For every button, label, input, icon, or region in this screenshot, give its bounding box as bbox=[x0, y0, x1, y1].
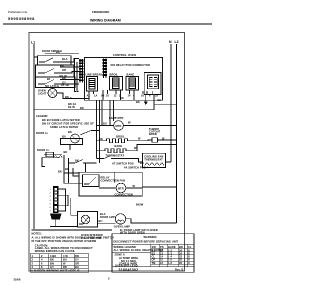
wire L2 bus bbox=[176, 44, 178, 223]
motor conv2 bbox=[116, 183, 126, 193]
svg-text:BN GY CIRCUIT FOR SPECIFIC: BN GY CIRCUIT FOR SPECIFIC USE OF bbox=[42, 122, 94, 126]
switch S2 box bbox=[36, 65, 75, 77]
wire vert bus 96 bbox=[96, 100, 98, 158]
svg-text:X: X bbox=[188, 261, 190, 265]
svg-text:1A: 1A bbox=[94, 94, 98, 98]
svg-text:W: W bbox=[128, 120, 131, 124]
chassis arrow bbox=[145, 95, 147, 102]
thermostat switch wire bbox=[97, 156, 112, 159]
lock motor circle bbox=[81, 215, 90, 224]
svg-text:WIRING ERRORS CAN CAUSE: WIRING ERRORS CAN CAUSE bbox=[35, 249, 75, 253]
svg-text:Publication No.: Publication No. bbox=[8, 10, 28, 14]
svg-text:BU: BU bbox=[62, 135, 66, 139]
wire left drop bbox=[64, 173, 70, 183]
svg-text:14: 14 bbox=[128, 94, 132, 98]
control board box bbox=[85, 58, 163, 101]
svg-text:35/06: 35/06 bbox=[14, 277, 21, 281]
svg-text:BK: BK bbox=[50, 258, 54, 262]
legend sub table bbox=[151, 244, 195, 267]
svg-text:SOME LATCH NOTED: SOME LATCH NOTED bbox=[50, 125, 78, 129]
svg-text:MTR: MTR bbox=[116, 124, 122, 128]
switch S1 contact bbox=[39, 58, 53, 62]
svg-text:Rev. B: Rev. B bbox=[175, 267, 184, 271]
relay K4 coil bbox=[149, 78, 157, 87]
relay inner box bbox=[82, 175, 99, 187]
notes divider bbox=[31, 229, 112, 231]
svg-text:BK BU SOME LATCH NOTED: BK BU SOME LATCH NOTED bbox=[42, 118, 80, 122]
wire box to L2 bbox=[142, 186, 176, 188]
svg-text:BK: BK bbox=[64, 150, 68, 154]
cooling fan box bbox=[143, 153, 166, 167]
svg-text:OR: OR bbox=[75, 261, 79, 265]
wire bake to L2 bbox=[131, 145, 176, 151]
wire from conv box down bbox=[70, 198, 72, 215]
svg-text:BROIL: BROIL bbox=[110, 73, 119, 77]
svg-text:MTR: MTR bbox=[118, 186, 124, 190]
svg-text:318046302: 318046302 bbox=[119, 268, 139, 272]
wire lamp feed bbox=[98, 222, 116, 224]
wire vertical drop A bbox=[75, 59, 77, 92]
wire bottom left circuit bbox=[50, 226, 78, 228]
svg-text:BK: BK bbox=[75, 159, 79, 163]
wire vert 110 bbox=[109, 100, 111, 125]
svg-text:AT SWITCH POS: AT SWITCH POS bbox=[112, 162, 134, 166]
svg-text:LEGEND:: LEGEND: bbox=[36, 114, 48, 118]
svg-text:OR: OR bbox=[62, 68, 66, 72]
svg-text:BK: BK bbox=[158, 98, 162, 102]
wire lamp out bbox=[57, 93, 89, 99]
svg-text:1-6: 1-6 bbox=[168, 261, 173, 265]
wire conv right to N bbox=[123, 125, 176, 127]
svg-text:LINE BREAK: LINE BREAK bbox=[86, 73, 103, 77]
connector P1 strip bbox=[80, 59, 83, 83]
svg-text:A1: A1 bbox=[87, 94, 91, 98]
wire motor right bbox=[126, 187, 143, 189]
wire S3 out bbox=[60, 83, 79, 85]
svg-text:CONVECTION: CONVECTION bbox=[115, 193, 133, 197]
wire door motor down bbox=[69, 145, 71, 151]
connector J1 strip bbox=[54, 187, 59, 213]
switch S3 box bbox=[36, 77, 76, 88]
wire thermostat to cooling fan bbox=[123, 159, 143, 163]
svg-text:WIRING DIAGRAM: WIRING DIAGRAM bbox=[90, 19, 121, 23]
svg-text:BAKE: BAKE bbox=[115, 144, 123, 148]
svg-text:16: 16 bbox=[160, 261, 164, 265]
svg-text:3 BK: 3 BK bbox=[50, 254, 56, 258]
svg-text:TM: TM bbox=[152, 261, 156, 265]
lock motor box bbox=[78, 212, 98, 228]
svg-text:16: 16 bbox=[141, 94, 145, 98]
relay K4 outer box bbox=[144, 73, 161, 95]
wire BK long left bbox=[34, 109, 154, 111]
switch S3 contact bbox=[38, 80, 54, 85]
relay K1 coil bbox=[89, 79, 95, 90]
svg-text:BU: BU bbox=[99, 219, 103, 223]
svg-text:2A 1B: 2A 1B bbox=[61, 83, 69, 87]
wire N bus bbox=[170, 44, 172, 162]
wire vert 113.5 bbox=[113, 100, 115, 121]
lamp oven circle bbox=[115, 214, 125, 224]
element bake bbox=[97, 149, 132, 153]
svg-text:BN: BN bbox=[50, 261, 54, 265]
svg-text:L1: L1 bbox=[31, 41, 35, 45]
svg-text:BK: BK bbox=[136, 100, 140, 104]
svg-text:12: 12 bbox=[114, 94, 118, 98]
svg-text:5995398998: 5995398998 bbox=[8, 16, 35, 21]
svg-text:W: W bbox=[63, 261, 66, 265]
switch S2 contact bbox=[38, 69, 54, 74]
svg-text:W: W bbox=[134, 146, 137, 150]
svg-text:W: W bbox=[133, 184, 136, 188]
svg-text:DOOR LL: DOOR LL bbox=[37, 148, 50, 152]
wire S2 out top bbox=[60, 66, 79, 68]
svg-text:CONVECTION FAN: CONVECTION FAN bbox=[101, 179, 126, 183]
relay inner contact bbox=[84, 177, 96, 184]
strip exit wires bbox=[58, 189, 68, 211]
svg-text:BLA: BLA bbox=[62, 57, 68, 61]
drawing frame bbox=[29, 33, 185, 272]
lamp oven light bbox=[48, 89, 57, 98]
svg-text:BK/W: BK/W bbox=[136, 203, 144, 207]
door lock hatch bbox=[53, 156, 63, 159]
svg-text:BRKR: BRKR bbox=[149, 132, 157, 136]
svg-text:DOOR LMP: DOOR LMP bbox=[100, 215, 115, 219]
svg-text:BK: BK bbox=[99, 137, 103, 141]
door lock arm bbox=[42, 156, 60, 158]
svg-text:BK: BK bbox=[80, 106, 84, 110]
svg-text:L2: L2 bbox=[175, 40, 179, 44]
wire K4 output drop bbox=[153, 95, 155, 110]
door motor circle bbox=[71, 134, 80, 143]
svg-text:BU: BU bbox=[75, 265, 79, 269]
part number row bbox=[112, 266, 194, 268]
wire S3 out top bbox=[60, 79, 79, 81]
svg-text:LIGHT SW ASM: LIGHT SW ASM bbox=[81, 236, 101, 240]
wire K4 to L2 bbox=[154, 103, 177, 105]
svg-text:LIGHT: LIGHT bbox=[38, 92, 47, 96]
ground terminal block bbox=[50, 214, 62, 220]
svg-text:NO LATCH: NO LATCH bbox=[45, 84, 59, 88]
svg-text:BK: BK bbox=[56, 50, 60, 54]
svg-text:B1: B1 bbox=[47, 77, 51, 81]
relay K2 box bbox=[110, 77, 123, 91]
svg-text:26: 26 bbox=[179, 261, 183, 265]
wire motor left bbox=[70, 182, 82, 184]
latch switch wire bbox=[69, 160, 84, 164]
svg-text:BK: BK bbox=[68, 130, 72, 134]
wire vert 102 bbox=[101, 100, 103, 125]
svg-text:GY: GY bbox=[50, 265, 54, 269]
svg-text:BK: BK bbox=[60, 64, 64, 68]
fuse thermal cutout bbox=[152, 138, 158, 142]
svg-text:10: 10 bbox=[106, 94, 110, 98]
svg-text:OVEN LAMP: OVEN LAMP bbox=[114, 225, 130, 229]
svg-text:CONTROL, OVEN: CONTROL, OVEN bbox=[113, 53, 136, 57]
door lock cam bar bbox=[46, 152, 54, 157]
wire lamp to L2 bbox=[126, 219, 177, 223]
svg-text:BAKE: BAKE bbox=[127, 73, 135, 77]
cooling fan hatch bbox=[145, 163, 165, 166]
svg-text:W: W bbox=[138, 137, 141, 141]
svg-text:BU: BU bbox=[63, 258, 67, 262]
big box convection bbox=[79, 172, 142, 196]
relay pin stubs bbox=[89, 90, 152, 100]
svg-text:W: W bbox=[162, 137, 165, 141]
switch S1 box bbox=[38, 56, 72, 65]
svg-text:DISCONNECT POWER BEFORE SERVIC: DISCONNECT POWER BEFORE SERVICING UNIT bbox=[114, 240, 179, 244]
svg-text:LAMP MTR: LAMP MTR bbox=[109, 116, 123, 120]
svg-text:1B W: 1B W bbox=[68, 105, 75, 109]
wire door lock down pair bbox=[63, 155, 65, 173]
connector P2 strip bbox=[104, 59, 107, 79]
wire below control box verticals bbox=[97, 100, 114, 163]
door motor linkage bbox=[80, 131, 99, 136]
relay K3 coil bbox=[129, 78, 136, 89]
table cell text bbox=[31, 254, 80, 273]
door motor drive box bbox=[61, 139, 83, 145]
svg-text:A SUDDEN WARNING NOTE HERE IS: A SUDDEN WARNING NOTE HERE IS bbox=[31, 269, 80, 273]
motor conv circle bbox=[114, 121, 124, 131]
legend warning box bbox=[112, 234, 194, 272]
svg-text:BK: BK bbox=[140, 161, 144, 165]
wire cooling fan to N bbox=[166, 161, 172, 163]
svg-text:5: 5 bbox=[108, 277, 110, 281]
wire cross y173 bbox=[64, 172, 79, 174]
svg-text:BK: BK bbox=[65, 95, 69, 99]
lock switch contact bbox=[79, 217, 89, 224]
svg-text:THERMOSTAT: THERMOSTAT bbox=[144, 158, 163, 162]
relay pin labels row bbox=[87, 94, 159, 98]
relay K1 box bbox=[87, 77, 98, 92]
svg-text:RD: RD bbox=[63, 265, 67, 269]
svg-text:WARNING: WARNING bbox=[144, 235, 157, 239]
relay K4 inner box bbox=[148, 75, 159, 89]
wire vert 99 bbox=[99, 100, 101, 163]
wire broil to N bbox=[140, 138, 152, 141]
svg-text:NOTES:: NOTES: bbox=[32, 232, 42, 236]
element broil bbox=[97, 139, 141, 143]
wire S1 out top bbox=[45, 53, 79, 55]
wire lamp top bbox=[52, 88, 54, 89]
svg-text:BK: BK bbox=[58, 169, 62, 173]
svg-text:18: 18 bbox=[155, 94, 159, 98]
svg-text:BK W: BK W bbox=[60, 74, 68, 78]
svg-text:FRIGIDAIRE: FRIGIDAIRE bbox=[92, 10, 109, 14]
svg-text:BROIL: BROIL bbox=[116, 135, 125, 139]
relay K3 box bbox=[126, 77, 139, 91]
header rule bbox=[3, 23, 212, 25]
wire L1 bus bbox=[33, 44, 35, 229]
wire L1 to S1 bbox=[34, 56, 38, 58]
connector pin numbers bbox=[50, 189, 52, 213]
relay K2 coil bbox=[113, 78, 120, 89]
wire S1 out bbox=[58, 59, 79, 63]
svg-text:BK: BK bbox=[65, 167, 69, 171]
svg-text:BU: BU bbox=[103, 122, 107, 126]
svg-text:DOOR LL: DOOR LL bbox=[36, 131, 49, 135]
svg-text:GY: GY bbox=[75, 258, 79, 262]
bottom-left table bbox=[31, 253, 89, 273]
svg-text:4 W: 4 W bbox=[63, 254, 68, 258]
svg-text:RD: RD bbox=[75, 254, 79, 258]
wire S2 out bbox=[60, 72, 79, 74]
svg-text:600 RELAY/TOD CONNECTOR: 600 RELAY/TOD CONNECTOR bbox=[111, 63, 150, 67]
wire vertical drop B bbox=[77, 62, 79, 92]
wire conv left bbox=[97, 125, 114, 127]
svg-text:BK: BK bbox=[120, 96, 124, 100]
